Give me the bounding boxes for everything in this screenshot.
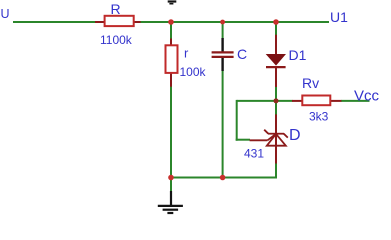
svg-text:100k: 100k (180, 65, 207, 79)
svg-text:U1: U1 (330, 9, 348, 25)
svg-text:r: r (184, 46, 189, 61)
svg-text:Vcc: Vcc (354, 88, 380, 105)
svg-text:C: C (237, 46, 247, 62)
svg-text:3k3: 3k3 (309, 110, 329, 124)
svg-text:D1: D1 (289, 47, 307, 63)
svg-text:D: D (289, 127, 301, 144)
svg-text:1100k: 1100k (100, 33, 133, 47)
svg-text:Rv: Rv (302, 75, 319, 91)
svg-text:431: 431 (244, 147, 264, 161)
svg-text:R: R (111, 1, 121, 17)
svg-text:U: U (1, 7, 10, 21)
